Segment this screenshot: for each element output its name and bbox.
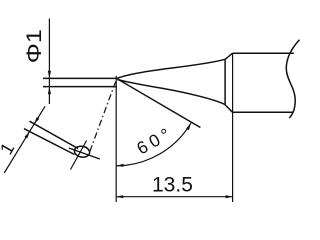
detail view: bevel face ellipse (73, 145, 90, 158)
bevel cut line 60deg (118, 79, 201, 128)
arc arrow on bevel line (186, 123, 191, 130)
13.5 left arrow (116, 195, 123, 198)
svg-text:60°: 60° (133, 122, 177, 158)
detail dim arrow lower (25, 132, 30, 139)
vertex extension line (115, 76, 117, 202)
tip cylinder bottom line (43, 86, 117, 88)
phi1 arrow lower (48, 87, 51, 95)
13.5 dimension line (116, 196, 232, 198)
bottom chamfer (225, 105, 233, 113)
body edge vertical and extension down (232, 53, 234, 202)
svg-text:13.5: 13.5 (152, 173, 193, 196)
phi1 arrow upper (48, 71, 51, 79)
detail view: major axis line (69, 148, 100, 159)
body top line (233, 52, 294, 54)
tip cylinder top line (43, 77, 118, 79)
detail view: cylinder bottom line (24, 129, 75, 155)
detail dim arrow upper (34, 117, 39, 124)
top flare curve (118, 59, 226, 78)
60 deg arc (116, 123, 190, 166)
arc arrow left end (116, 164, 123, 167)
13.5 right arrow (226, 195, 233, 198)
phi1 dimension extension line (48, 19, 50, 105)
svg-text:Φ1: Φ1 (23, 29, 46, 63)
detail view: minor axis line (71, 141, 87, 170)
detail view: diameter dimension line (4, 106, 45, 173)
break wavy line (286, 40, 299, 118)
rotation centerline dash-dot (90, 82, 116, 152)
detail view: cylinder top line (30, 121, 79, 148)
bottom flare curve (117, 80, 225, 105)
top chamfer (225, 53, 232, 59)
body bottom line (233, 111, 293, 113)
sleeve front face line (224, 59, 226, 104)
